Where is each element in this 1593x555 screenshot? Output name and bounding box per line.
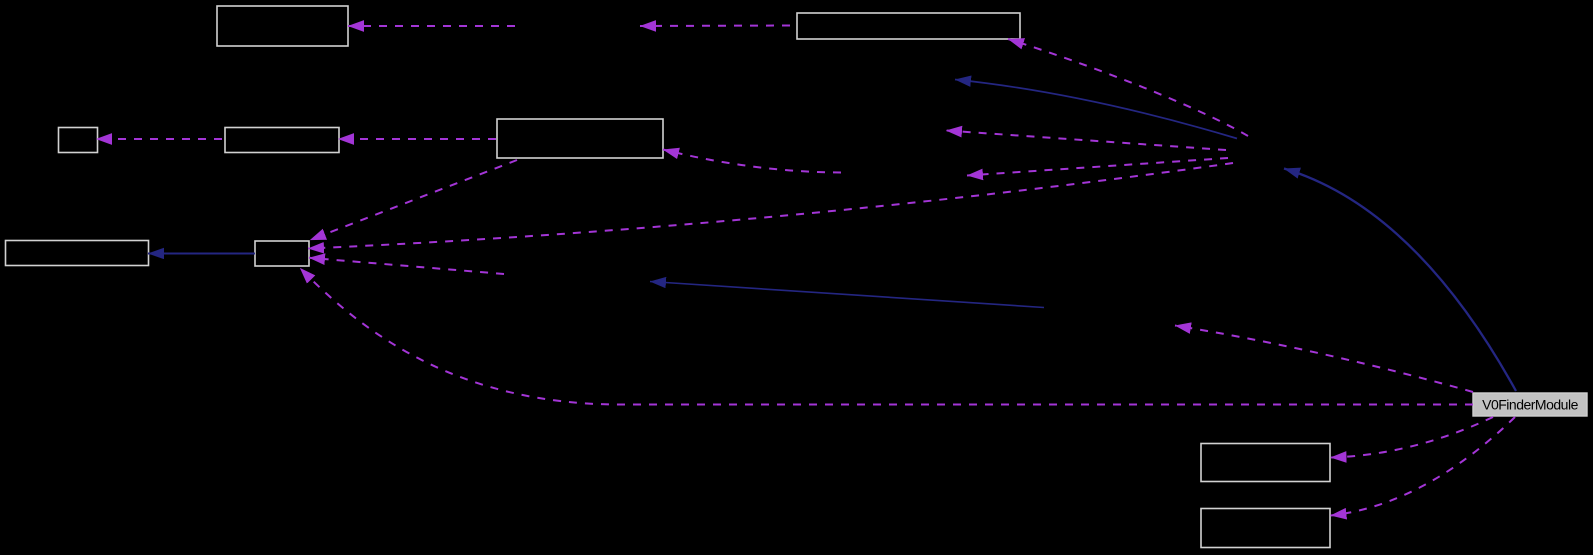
node boxA (bottom right upper) xyxy=(1201,444,1330,482)
edge e6 hub to dangling left arrow upper xyxy=(946,131,1226,151)
edge e3 box4 to box3 xyxy=(96,138,222,140)
node box7 (small hub) xyxy=(255,241,309,266)
node box1 (top-left) xyxy=(217,6,348,46)
node box6 (left long) xyxy=(6,241,149,266)
edge e2 dashed stub from box2 left xyxy=(640,25,790,28)
edge b3 blue hub to dangling upper-left xyxy=(955,80,1237,139)
node V0FinderModule xyxy=(1473,393,1587,416)
node box2 (top-middle) xyxy=(797,13,1020,39)
edge e15 V0FinderModule to boxB xyxy=(1331,417,1516,516)
edge b1 blue box7 to box6 xyxy=(148,253,255,255)
edge e1 dashed stub into box1 xyxy=(348,25,515,27)
edge e4 box5 to box4 xyxy=(338,138,496,140)
edge e8 hub long swoop to box7 right edge xyxy=(308,163,1233,249)
node box4 xyxy=(225,128,339,153)
edge e5 hub to box2 corner xyxy=(1008,39,1248,136)
edge e14 V0FinderModule to boxA xyxy=(1331,417,1494,458)
edge e7 hub to dangling left arrow lower xyxy=(967,158,1228,176)
edge e12 V0FinderModule long swoop to box7 bottom xyxy=(300,268,1473,405)
edge e9 stub into box5 right edge xyxy=(663,150,841,173)
edge e13 V0FinderModule to dangling mid arrow xyxy=(1175,326,1473,393)
node box3 (small left) xyxy=(59,128,98,153)
edge b2 blue V0FinderModule to hub xyxy=(1284,169,1516,392)
edge e10 box5 bottom to box7 top-right corner xyxy=(310,160,517,240)
node box5 (middle) xyxy=(497,119,663,158)
svg-text:V0FinderModule: V0FinderModule xyxy=(1482,397,1578,413)
node boxB (bottom right lower) xyxy=(1201,509,1330,548)
edge e11 stub into box7 right edge lower xyxy=(309,258,504,274)
edge b4 blue dangling middle xyxy=(650,282,1044,308)
